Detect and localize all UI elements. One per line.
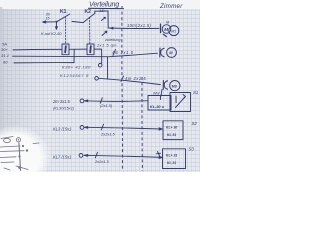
svg-text:15+: 15+: [100, 9, 106, 13]
svg-text:M3: M3: [172, 84, 177, 88]
terminal box S2: [163, 121, 183, 140]
pencil sketch scribbles (erased draft, bottom-left): [0, 137, 39, 171]
motor M3 circle: [170, 81, 180, 91]
svg-text:10m(2x1.5): 10m(2x1.5): [127, 23, 151, 28]
svg-text:K1: K1: [60, 9, 67, 15]
svg-text:KL 31: KL 31: [167, 133, 176, 137]
mech link switch K1 to relay coil K1 (dashed): [65, 17, 67, 44]
switch K1 blade: [57, 14, 70, 22]
svg-text:KL3 /15x1: KL3 /15x1: [53, 126, 71, 131]
dashed boundary line D1: [121, 6, 124, 171]
relay coil K1: [62, 44, 69, 55]
socket X3 (arc + bar): [164, 81, 167, 89]
svg-text:60: 60: [3, 59, 8, 64]
motor M2 circle: [167, 48, 177, 58]
svg-text:M1: M1: [171, 29, 176, 33]
svg-text:KL 31: KL 31: [167, 161, 176, 165]
svg-text:2x1.5 qm: 2x1.5 qm: [96, 42, 117, 47]
svg-text:15: 15: [46, 17, 50, 21]
socket X1 contact bar: [160, 24, 162, 32]
svg-text:2x2x1.5: 2x2x1.5: [94, 159, 109, 164]
switch unit S1 box: [170, 93, 191, 112]
node K1234567 (terminal circle): [95, 77, 99, 81]
terminal box S3: [163, 149, 186, 169]
terminal box of S1 (KL-30): [148, 96, 171, 111]
svg-text:Verteilung: Verteilung: [89, 0, 119, 9]
svg-text:K1234567 8: K1234567 8: [60, 73, 89, 78]
wire to socket X2 (cable 4m 2x1.5): [108, 53, 158, 57]
dashed boundary line D2: [141, 77, 143, 171]
socket X2 (arc + bar): [161, 48, 164, 56]
svg-text:KL+ 30: KL+ 30: [166, 125, 177, 129]
svg-text:S2: S2: [192, 121, 198, 126]
svg-text:2m 3x1.5: 2m 3x1.5: [52, 99, 71, 104]
bus 30+: [13, 48, 62, 51]
wire K2 blade to top wire: [94, 11, 96, 13]
wire vertical drop to motor feed: [107, 11, 109, 28]
wire row 3 to box S3 (cable 2x2x1.5): [84, 155, 162, 157]
wire bus 60 up to bus 30+ segment: [73, 49, 75, 62]
node terminal row 2 (circle): [80, 126, 84, 130]
wire socket X3 down to box S1: [161, 90, 162, 97]
svg-text:K30+ 42.180: K30+ 42.180: [62, 65, 91, 70]
wire junction vertical at x107: [107, 57, 109, 79]
svg-text:S3: S3: [189, 146, 195, 151]
mech link switch K2 to relay coil K2 (dashed): [89, 17, 91, 43]
arrow down from K1 pivot: [55, 22, 57, 28]
title underline: [89, 7, 124, 9]
svg-text:(KL30/15x1): (KL30/15x1): [53, 105, 75, 110]
wire from switch K2 to net 15+ (horizontal): [95, 10, 108, 12]
node K30+ 42.180 (terminal circle): [98, 63, 102, 67]
node terminal row 3 (circle): [79, 154, 83, 158]
svg-text:30+: 30+: [1, 47, 8, 52]
wire between switch K1 and switch K2: [72, 21, 83, 22]
svg-text:S1: S1: [193, 90, 199, 95]
wire row 2 to box S2 (cable 2x2x1.5): [85, 127, 163, 129]
switch K2 blade: [83, 13, 95, 22]
bus 31-1: [13, 55, 108, 58]
svg-text:31-1: 31-1: [1, 53, 9, 58]
arrow pointing to Zuleitung wire: [102, 32, 107, 36]
wire relay coil K2 to terminal node K30+: [94, 49, 102, 63]
motor M1 (double circle): [162, 25, 171, 34]
wire to motor M1 (cable 10m 2x1.5): [108, 27, 159, 30]
svg-text:K2: K2: [85, 9, 92, 15]
svg-text:4m 2x1.5: 4m 2x1.5: [112, 50, 134, 55]
svg-text:KL+ 31: KL+ 31: [166, 153, 177, 157]
svg-text:(2x1.5): (2x1.5): [100, 103, 113, 108]
wire bus 30+ segment between coils: [69, 48, 87, 50]
node: switch K1 pivot: [56, 21, 58, 23]
svg-text:WW: WW: [153, 92, 160, 96]
small arrow near K2 wire bend: [102, 18, 106, 21]
svg-text:K auf K2-60: K auf K2-60: [41, 31, 62, 36]
svg-text:M: M: [164, 27, 168, 32]
bus 60: [14, 62, 74, 64]
svg-text:2x2x1.5: 2x2x1.5: [100, 131, 115, 136]
wire row 1 to box S1 (cable 2x1.5): [85, 100, 149, 103]
svg-text:4m 2x1.5: 4m 2x1.5: [125, 76, 146, 81]
node terminal row 1 (circle): [80, 99, 84, 103]
relay coil K2: [87, 44, 94, 55]
svg-text:KL-30 u: KL-30 u: [150, 105, 165, 109]
svg-text:Zimmer: Zimmer: [159, 3, 183, 10]
svg-text:KL7 /15x1: KL7 /15x1: [53, 154, 71, 159]
wire into switch K1 (left feed with arrow): [43, 21, 56, 23]
wire to socket X3 (cable 4m 2x1.5): [98, 78, 160, 84]
svg-text:zuleitung: zuleitung: [104, 37, 121, 42]
